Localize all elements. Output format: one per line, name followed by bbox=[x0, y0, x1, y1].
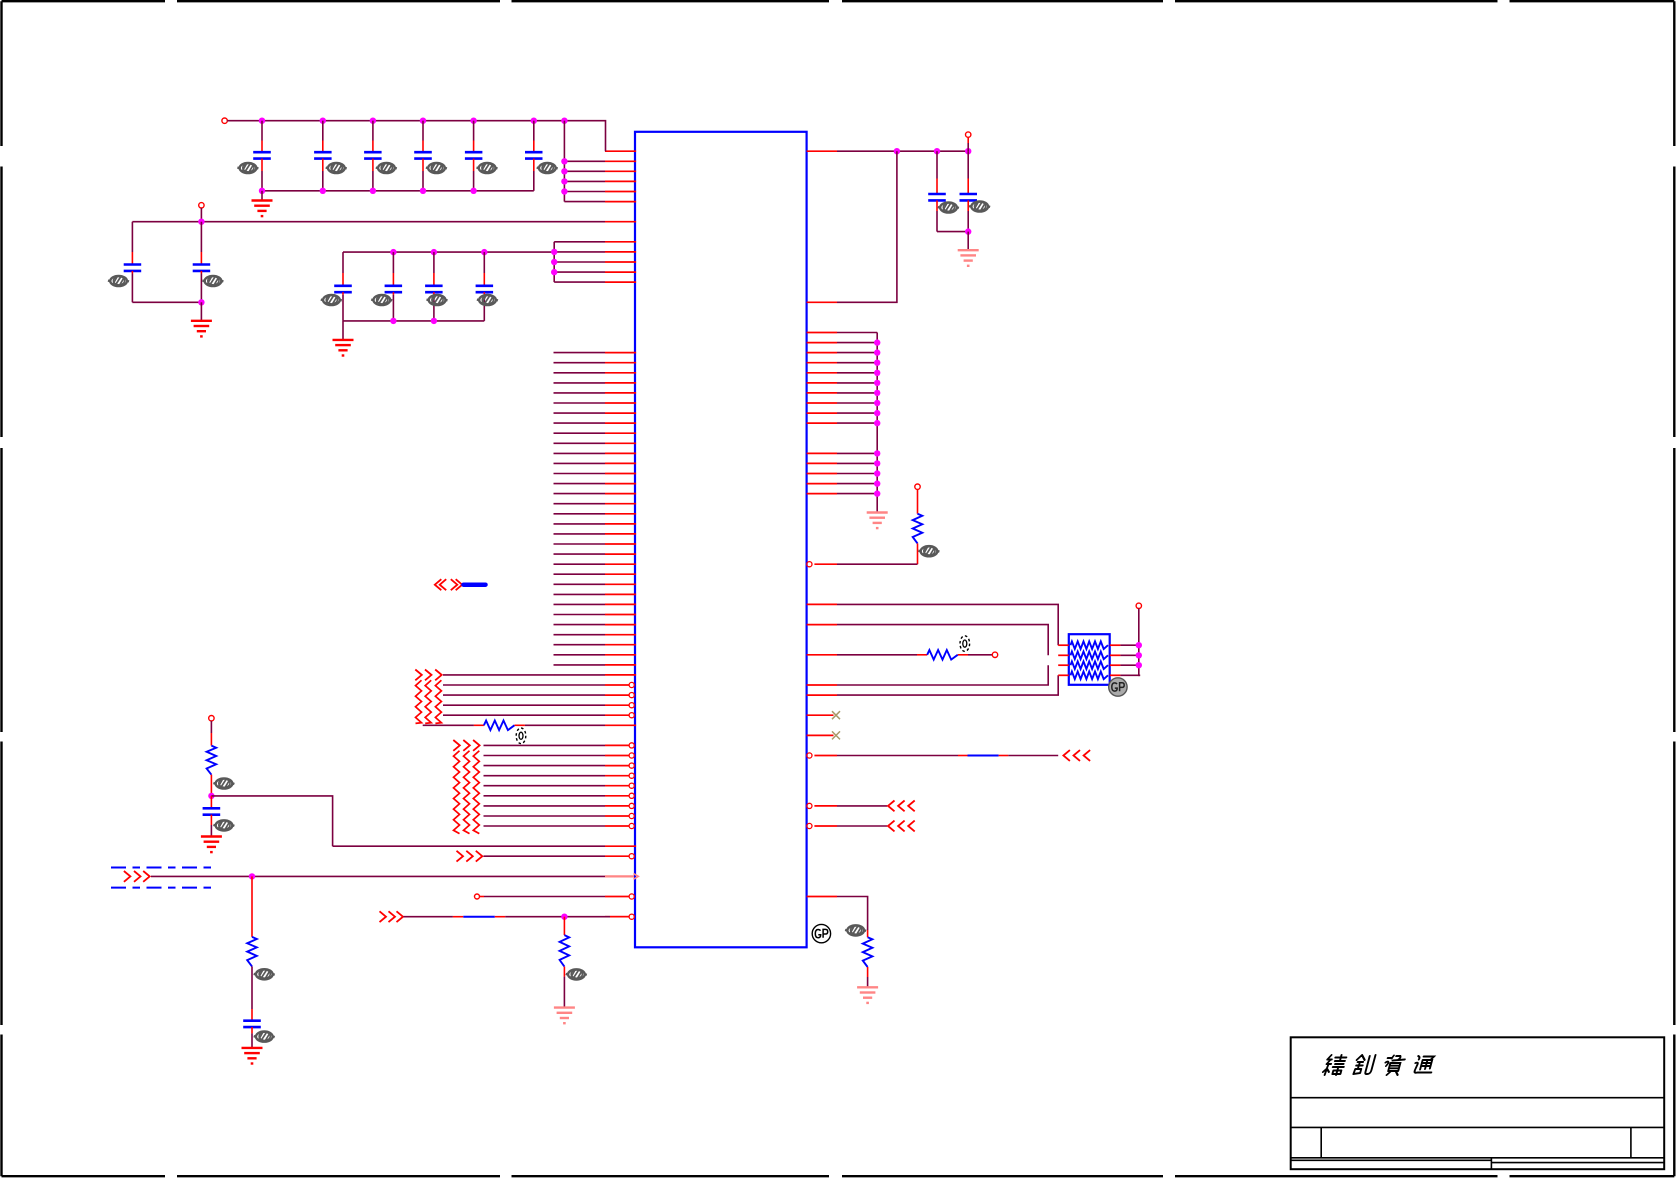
power terminal T8 bbox=[1136, 603, 1141, 608]
capacitor C12 bbox=[476, 252, 494, 321]
ground bbox=[242, 1048, 263, 1064]
GP marker (black) bbox=[812, 924, 830, 942]
off-page connector cluster A bbox=[415, 670, 441, 724]
wire R7 to ground bbox=[867, 967, 869, 987]
wires cluster B rows bbox=[484, 745, 606, 826]
wire row 57 right bbox=[525, 724, 605, 726]
capacitor C9 bbox=[334, 252, 352, 321]
GP marker (grey) bbox=[1109, 678, 1127, 696]
capacitor C2 bbox=[314, 121, 332, 191]
capacitor C15 bbox=[203, 796, 221, 837]
C7 value label bbox=[108, 276, 129, 286]
resistor R1 bbox=[207, 746, 217, 775]
resistor R7 bbox=[863, 937, 873, 967]
junctions on top rail bbox=[259, 118, 568, 124]
junction bbox=[965, 228, 971, 234]
wire row 57 left bbox=[423, 724, 474, 726]
C15 value label bbox=[213, 820, 234, 830]
capacitor C11 bbox=[425, 252, 443, 321]
capacitor C14 bbox=[960, 151, 978, 231]
wire bank C7C8 ground rail bbox=[132, 301, 201, 303]
resistor R3 bbox=[560, 935, 570, 967]
C8 value label bbox=[202, 276, 223, 286]
ground bbox=[333, 340, 354, 356]
wire row45 bbox=[837, 604, 1058, 645]
capacitor C8 bbox=[193, 222, 211, 303]
wire T2 drop bbox=[200, 208, 202, 222]
wire row60 multicolor bbox=[837, 755, 1058, 757]
wire node drop bbox=[563, 917, 565, 935]
R4 value 0 label bbox=[516, 728, 526, 744]
bus stub dashed upper bbox=[111, 867, 212, 869]
C2 value label bbox=[326, 163, 347, 173]
wires cluster A rows bbox=[443, 675, 605, 715]
bus stub dashed lower bbox=[111, 887, 212, 889]
resistor R5 leads bbox=[917, 654, 968, 656]
wire row74 right bbox=[837, 897, 868, 931]
junctions pin fan x=554 bbox=[551, 249, 557, 276]
C4 value label bbox=[426, 163, 447, 173]
R7 value label bbox=[845, 925, 866, 935]
capacitor C6 bbox=[525, 121, 543, 191]
power terminal T6 bbox=[915, 484, 920, 489]
wire row 67 bbox=[837, 825, 887, 827]
resistor network RN1 bbox=[1058, 634, 1120, 685]
wire pin fan vertical x=564 bbox=[564, 121, 605, 202]
U1 left pin stubs bbox=[605, 151, 636, 917]
wire row 74 bbox=[480, 896, 605, 898]
wire T6 to R6 bbox=[917, 489, 919, 513]
wire T5 drop bbox=[967, 137, 969, 151]
C16 value label bbox=[254, 1032, 275, 1042]
wire row54 bbox=[837, 675, 1058, 695]
off-page connector bidirectional bbox=[435, 579, 462, 590]
wire loop to row15 bbox=[837, 151, 897, 302]
wire row 70 bbox=[484, 855, 606, 857]
power terminal T3 bbox=[209, 716, 214, 721]
junction bbox=[249, 873, 255, 879]
wire pin fan x=554 bbox=[554, 242, 605, 282]
power terminal T7 bbox=[992, 652, 997, 657]
wire node to row69 bbox=[211, 796, 332, 846]
wire R7 top lead bbox=[867, 930, 869, 937]
C12 value label bbox=[477, 295, 498, 305]
wire RN1 bus bbox=[1139, 609, 1140, 676]
junctions ground bus bbox=[874, 339, 880, 496]
ground (pink) bbox=[857, 987, 878, 1003]
ground (pink) bbox=[554, 1008, 575, 1024]
capacitor C7 bbox=[124, 252, 142, 302]
wire C13C14 ground rail bbox=[937, 231, 968, 233]
wire cap bank1 ground rail bbox=[262, 190, 534, 192]
ground bbox=[201, 837, 222, 853]
wire VDD top rail bbox=[227, 121, 605, 152]
junctions on bank1 ground rail bbox=[259, 188, 477, 194]
C13 value label bbox=[938, 202, 959, 212]
junctions on pin fan bbox=[561, 158, 567, 195]
power terminal T5 bbox=[966, 132, 971, 137]
resistor R6 bbox=[913, 514, 923, 544]
resistor R4 bbox=[484, 721, 515, 731]
wire bank2 top rail bbox=[343, 251, 554, 253]
off-page connector row 67 bbox=[888, 821, 915, 832]
U1 right pin stubs bbox=[807, 151, 837, 896]
title block bbox=[1291, 1037, 1665, 1169]
wire R1 to node bbox=[210, 775, 212, 796]
capacitor C5 bbox=[465, 121, 483, 191]
off-page connector row 60 bbox=[1063, 750, 1090, 761]
wire row 69 bbox=[333, 845, 605, 847]
C11 value label bbox=[427, 295, 448, 305]
junction bbox=[561, 914, 567, 920]
wire row 76 multicolor bbox=[404, 916, 630, 918]
junction bbox=[208, 793, 214, 799]
C3 value label bbox=[376, 163, 397, 173]
wire ground drop bbox=[200, 302, 202, 321]
capacitor C10 bbox=[385, 252, 403, 321]
C6 value label bbox=[537, 163, 558, 173]
R5 value 0 label bbox=[960, 636, 970, 652]
U1 left pin bubbles bbox=[629, 682, 634, 919]
wire ground drop bbox=[967, 232, 969, 251]
U1 right pin bubbles bbox=[807, 562, 812, 829]
wire ground bus x=877 bbox=[876, 333, 878, 513]
R3 value label bbox=[566, 969, 587, 979]
wires to ground bus bbox=[837, 333, 877, 494]
off-page connector cluster B bbox=[453, 740, 479, 834]
capacitor C16 bbox=[243, 1021, 261, 1048]
junctions right top rail bbox=[894, 148, 972, 154]
wire row 72 bbox=[151, 875, 605, 877]
wire R3 to ground bbox=[563, 967, 565, 1008]
resistor R4 leads bbox=[474, 724, 525, 726]
wire right top rail bbox=[837, 150, 968, 152]
ground bbox=[191, 321, 212, 337]
ground (pink) bbox=[958, 250, 979, 266]
wire rail y=222 bbox=[132, 221, 605, 223]
C10 value label bbox=[371, 295, 392, 305]
wire ground drop bbox=[261, 191, 263, 201]
wire R2 to C16 bbox=[251, 966, 253, 1020]
power terminal T2 bbox=[199, 203, 204, 208]
off-page connector row 72 bbox=[124, 871, 150, 882]
wire row47 bbox=[837, 625, 1048, 656]
U1 input pin arrow (row 72) bbox=[605, 874, 638, 880]
junction T2 rail bbox=[198, 219, 204, 225]
junctions RN1 bus bbox=[1136, 642, 1142, 668]
net stub (blue) bbox=[464, 582, 486, 587]
wire row 65 bbox=[837, 805, 887, 807]
C9 value label bbox=[321, 295, 342, 305]
capacitor C4 bbox=[414, 121, 432, 191]
C5 value label bbox=[477, 163, 498, 173]
wire row53 bbox=[837, 665, 1048, 685]
C14 value label bbox=[969, 201, 990, 211]
R2 value label bbox=[254, 969, 275, 979]
Wistron logo text bbox=[1322, 1055, 1436, 1075]
power terminal T1 bbox=[222, 118, 227, 123]
wire row50 right bbox=[968, 654, 992, 656]
off-page connector row 65 bbox=[888, 801, 915, 812]
no-connect crosses bbox=[832, 711, 840, 739]
resistor R5 bbox=[927, 650, 958, 660]
capacitor C1 bbox=[253, 121, 271, 191]
resistor R2 bbox=[247, 937, 257, 967]
ground (pink) bbox=[867, 513, 888, 529]
wire bank2 ground rail bbox=[343, 320, 484, 322]
wire R6 to row41 bbox=[837, 543, 918, 564]
ground bbox=[252, 201, 273, 217]
junctions bank2 ground rail bbox=[390, 318, 437, 324]
R1 value label bbox=[213, 778, 234, 788]
wire row50 left bbox=[837, 654, 917, 656]
wires RN1 right bbox=[1120, 645, 1140, 675]
IC U1 bbox=[635, 132, 807, 948]
wire ground drop bbox=[342, 321, 344, 340]
off-page connector row 76 bbox=[380, 911, 404, 922]
wire start terminal bbox=[475, 894, 480, 899]
junctions bank2 rail bbox=[390, 249, 487, 255]
junction bbox=[198, 299, 204, 305]
capacitor C13 bbox=[928, 151, 946, 231]
wire node drop bbox=[251, 876, 253, 937]
R6 value label bbox=[918, 546, 939, 556]
off-page connector row 70 bbox=[457, 851, 483, 862]
wire T3 drop bbox=[210, 721, 212, 746]
C1 value label bbox=[237, 163, 258, 173]
wires U1 left bus rows bbox=[554, 353, 606, 665]
capacitor C3 bbox=[364, 121, 382, 191]
